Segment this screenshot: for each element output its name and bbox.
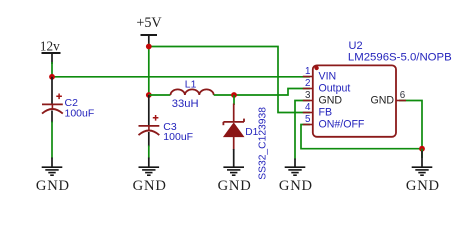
svg-text:U2: U2	[349, 40, 363, 52]
wire L1 to Output pin2	[234, 89, 310, 96]
svg-text:6: 6	[400, 90, 406, 101]
svg-text:12v: 12v	[40, 39, 60, 54]
wire 12v stub	[51, 62, 53, 77]
svg-text:4: 4	[305, 102, 311, 113]
power +5V	[136, 15, 162, 45]
wire junction to D1	[233, 95, 235, 105]
wire C3 to ground	[148, 146, 150, 159]
svg-text:GND: GND	[319, 95, 343, 107]
svg-text:GND: GND	[370, 95, 394, 107]
ground right	[406, 151, 440, 194]
pin 1 stub	[303, 76, 313, 78]
wire L1 right lead	[214, 94, 234, 96]
wire top horizontal to FB column	[149, 47, 310, 113]
ground under C3	[133, 158, 167, 195]
ground under D1	[218, 149, 252, 194]
wire 12v to VIN pin1	[52, 76, 310, 78]
wire +5V vertical to L1 row	[148, 44, 150, 96]
node ground rail junction	[419, 146, 425, 152]
pin 5 stub	[303, 124, 313, 126]
svg-text:L1: L1	[185, 79, 197, 90]
svg-text:Output: Output	[319, 83, 351, 95]
wire L1 left lead	[149, 94, 171, 96]
svg-text:GND: GND	[36, 178, 70, 194]
svg-text:100uF: 100uF	[65, 107, 95, 119]
wire ON#/OFF pin5 to ground rail	[301, 125, 422, 149]
svg-text:GND: GND	[133, 178, 167, 194]
diode D1	[223, 104, 244, 151]
svg-text:100uF: 100uF	[163, 131, 193, 143]
svg-text:ON#/OFF: ON#/OFF	[319, 119, 365, 131]
svg-text:GND: GND	[279, 178, 313, 194]
capacitor C3	[139, 95, 160, 147]
wire C2 to ground	[51, 122, 53, 159]
svg-text:GND: GND	[406, 178, 440, 194]
svg-text:SS32_C123938: SS32_C123938	[257, 107, 268, 180]
pin 4 stub	[303, 112, 313, 114]
svg-text:FB: FB	[319, 107, 333, 119]
wire junction to right ground	[421, 149, 423, 158]
svg-text:3: 3	[305, 90, 311, 101]
svg-text:GND: GND	[218, 178, 252, 194]
node U2 origin marker	[314, 66, 318, 70]
inductor L1	[171, 89, 214, 95]
wire GND pin3	[295, 101, 310, 160]
svg-text:33uH: 33uH	[172, 98, 199, 110]
svg-text:5: 5	[305, 114, 311, 125]
ground under pin3	[279, 159, 313, 195]
ground under C2	[36, 158, 70, 195]
port 12v	[40, 39, 61, 64]
svg-text:+5V: +5V	[136, 15, 162, 31]
pin 2 stub	[303, 88, 313, 90]
pin 3 stub	[303, 100, 313, 102]
capacitor C2	[42, 77, 63, 123]
node L1 right junction	[231, 92, 237, 98]
svg-text:2: 2	[305, 78, 310, 89]
pin 6 stub	[396, 100, 406, 102]
node +5V junction	[146, 44, 152, 50]
node 12v junction	[49, 74, 55, 80]
IC U2 box	[313, 65, 396, 136]
svg-text:LM2596S-5.0/NOPB: LM2596S-5.0/NOPB	[348, 52, 452, 64]
svg-text:1: 1	[305, 66, 310, 77]
node L1 left junction	[146, 92, 152, 98]
svg-text:VIN: VIN	[319, 71, 337, 83]
wire GND pin6	[399, 101, 422, 149]
